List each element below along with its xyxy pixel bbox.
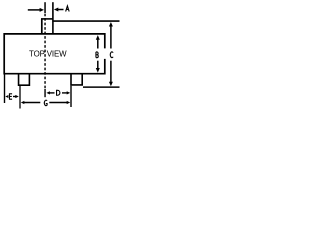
dimension C lower arrow shaft <box>110 61 112 84</box>
pin 1 (bottom left) outline <box>19 74 30 85</box>
dimension A right arrow shaft <box>58 9 64 11</box>
label B <box>96 52 98 58</box>
pin 1 extension line <box>19 86 21 109</box>
dimension B lower arrowhead (down) <box>96 68 100 73</box>
dimension E left arrowhead (points left) <box>5 95 8 98</box>
dimension A left arrow shaft <box>28 9 40 11</box>
dimension C lower arrowhead (down) <box>109 82 113 87</box>
dimension D left shaft <box>50 92 55 94</box>
pin 2 (bottom right) outline <box>71 74 82 85</box>
dimension D right arrowhead (points right) <box>67 91 71 94</box>
dimension A left extension line (solid) <box>44 2 46 13</box>
dimension A right arrowhead <box>54 8 58 12</box>
dimension B upper arrowhead (up) <box>96 35 100 40</box>
pin 3 tab left edge <box>41 19 43 34</box>
dimension C bottom extension line <box>83 86 120 88</box>
label G <box>44 100 47 106</box>
dimension D left arrowhead (points left) <box>46 91 50 94</box>
dimension G left arrowhead (points left) <box>21 101 25 104</box>
dimension C upper arrowhead (up) <box>109 22 113 27</box>
label C <box>110 52 113 58</box>
dimension D right shaft <box>62 92 67 94</box>
body left edge extension line <box>4 75 6 104</box>
pin 3 dashed centerline <box>44 14 46 89</box>
package body outline (right edge broken at B/C labels) <box>4 34 105 74</box>
label E <box>9 94 12 99</box>
dimension G right arrowhead (points right) <box>67 101 71 104</box>
label D <box>57 90 60 95</box>
dimension C upper arrow shaft <box>110 24 112 49</box>
dimension G right shaft <box>49 102 67 104</box>
dimension E right arrow shaft <box>13 96 16 98</box>
pin 3 tab top edge <box>41 18 53 20</box>
label A <box>66 6 70 12</box>
dimension C top extension line <box>52 20 119 22</box>
dimension B lower arrow shaft <box>97 61 99 71</box>
pin 3 centerline solid lower segment <box>44 89 46 97</box>
dimension G left shaft <box>24 102 40 104</box>
dimension E right arrowhead (points right) <box>15 95 18 98</box>
pin 2 extension line <box>70 86 72 107</box>
dimension A left arrowhead <box>40 8 44 12</box>
svg-text:TOP VIEW: TOP VIEW <box>29 49 67 58</box>
pin 3 tab right edge + dimension A right extension line <box>52 2 54 33</box>
dimension B upper arrow shaft <box>97 38 99 49</box>
